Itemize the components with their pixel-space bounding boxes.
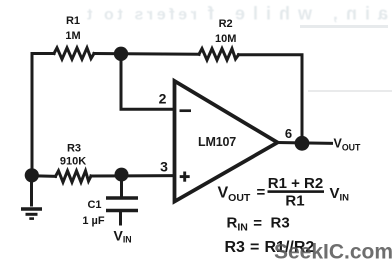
svg-text:R1: R1 bbox=[66, 15, 80, 27]
svg-text:=: = bbox=[257, 184, 266, 201]
svg-text:R2: R2 bbox=[219, 18, 233, 30]
svg-text:R1: R1 bbox=[285, 193, 304, 210]
wire: pin 3 row (left rail junction to op-amp) bbox=[32, 174, 56, 178]
svg-text:=: = bbox=[250, 239, 259, 256]
node: output junction dot bbox=[295, 136, 310, 151]
svg-text:10M: 10M bbox=[215, 33, 236, 45]
svg-text:LM107: LM107 bbox=[198, 135, 236, 149]
equation R3 = R1//R2 bbox=[225, 239, 315, 256]
svg-text:1 µF: 1 µF bbox=[82, 215, 105, 227]
background faint rule line right bbox=[308, 90, 392, 92]
wire: output from apex through node bbox=[278, 141, 332, 145]
svg-text:SeekIC.com: SeekIC.com bbox=[274, 240, 392, 263]
wire: R3 to C1 node to op-amp pin 3 bbox=[91, 174, 174, 177]
svg-text:R3: R3 bbox=[225, 239, 246, 256]
op-amp minus sign bbox=[180, 109, 192, 112]
wire: top rail left segment (corner to R1) bbox=[32, 54, 54, 177]
ground bbox=[21, 176, 42, 219]
wire: pin 2 branch from top junction bbox=[121, 54, 172, 110]
svg-text:910K: 910K bbox=[60, 156, 86, 168]
svg-text:=: = bbox=[253, 215, 262, 232]
wire: R1 to junction and on to R2 bbox=[94, 52, 199, 56]
op-amp U1 LM107 bbox=[175, 81, 278, 202]
wire: R2 to top-right corner, down right rail to output node bbox=[239, 55, 303, 144]
capacitor C1 bbox=[106, 175, 138, 226]
equation VOUT = (R1+R2)/R1 VIN bbox=[218, 175, 350, 210]
svg-text:6: 6 bbox=[285, 126, 292, 141]
svg-text:R3: R3 bbox=[271, 214, 290, 231]
resistor R3 bbox=[56, 171, 92, 182]
node: junction dot R3/C1/pin3 bbox=[115, 168, 129, 182]
svg-text:R1 + R2: R1 + R2 bbox=[268, 175, 323, 192]
svg-text:2: 2 bbox=[159, 91, 167, 107]
resistor R2 bbox=[199, 49, 239, 60]
op-amp plus sign bbox=[180, 175, 190, 178]
background faint smudge right bbox=[300, 25, 388, 28]
resistor R1 bbox=[54, 48, 94, 59]
svg-text:1M: 1M bbox=[65, 30, 80, 42]
equation RIN = R3 bbox=[227, 214, 290, 233]
node: junction dot R3/ground/rail bbox=[25, 168, 39, 182]
background bleed-through text row at top bbox=[86, 4, 388, 24]
svg-text:3: 3 bbox=[160, 159, 168, 175]
node: junction dot R1/R2/pin2 bbox=[114, 47, 128, 61]
svg-text:R3: R3 bbox=[67, 143, 81, 155]
svg-text:C1: C1 bbox=[87, 199, 101, 211]
